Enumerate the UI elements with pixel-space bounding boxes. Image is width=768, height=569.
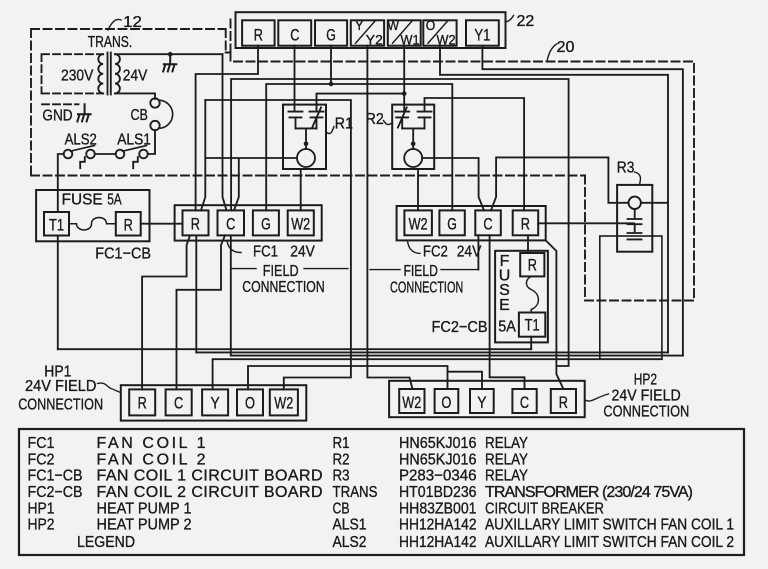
terminal G (thermostat) (315, 20, 347, 45)
svg-text:24V: 24V (457, 244, 482, 261)
svg-text:R1: R1 (333, 435, 350, 452)
terminal Y/Y2 (thermostat) (351, 20, 384, 45)
svg-text:5A: 5A (498, 319, 516, 336)
switch ALS2 (64, 150, 73, 159)
svg-text:TRANS: TRANS (333, 484, 378, 501)
wire: bus A (T1 to T1) (58, 348, 531, 350)
svg-text:230V: 230V (61, 68, 94, 85)
svg-text:HN65KJ016: HN65KJ016 (399, 451, 477, 468)
label 12 (108, 19, 121, 30)
svg-text:R: R (138, 394, 147, 413)
svg-text:HH12HA142: HH12HA142 (399, 517, 477, 534)
terminal O/W2 (thermostat) (423, 20, 456, 45)
svg-text:RELAY: RELAY (485, 468, 528, 485)
svg-text:T1: T1 (525, 316, 540, 335)
terminal W2 (HP2) (399, 389, 424, 413)
terminal R (FC1-CB) (116, 212, 141, 236)
leader: FC2 24V label (408, 241, 421, 254)
label 22 (506, 16, 514, 23)
svg-text:R: R (559, 393, 568, 412)
terminal C (HP1) (166, 389, 192, 415)
fuse board FC2-CB outline (495, 251, 548, 343)
svg-text:HEAT PUMP 1: HEAT PUMP 1 (97, 500, 192, 517)
svg-text:G: G (326, 25, 336, 44)
svg-text:24V FIELD: 24V FIELD (612, 388, 681, 405)
svg-text:GND: GND (42, 108, 72, 125)
R1 contact bottom bar and coil lead (296, 128, 317, 149)
svg-text:FC1: FC1 (253, 243, 278, 260)
dashed enclosure 20 boundary (31, 53, 694, 301)
label leader dashes FIELD CONNECTION (FC2) (370, 269, 477, 271)
R3 wiring loop box (600, 236, 662, 359)
relay R1 box (283, 105, 326, 169)
svg-text:FAN COIL 1 CIRCUIT BOARD: FAN COIL 1 CIRCUIT BOARD (97, 468, 323, 485)
svg-text:24V: 24V (123, 68, 148, 85)
svg-text:C: C (483, 214, 492, 233)
label FUSE (vertical, FC2-CB) (499, 253, 511, 314)
wire: R2 output to FC2 W2 (417, 169, 419, 210)
svg-text:C: C (520, 393, 529, 412)
wire: bus E linking O terminals (248, 366, 448, 389)
node: G junction (329, 82, 334, 87)
svg-text:Y1: Y1 (474, 25, 490, 44)
svg-text:RELAY: RELAY (485, 451, 528, 468)
svg-text:HH12HA142: HH12HA142 (399, 534, 477, 551)
dashed enclosure 12 (transformer box) (31, 16, 231, 176)
svg-text:E: E (499, 297, 510, 314)
terminal R (HP2) (551, 389, 576, 413)
terminal Y (HP1) (202, 389, 228, 415)
svg-text:W: W (388, 18, 400, 33)
svg-text:TRANS.: TRANS. (88, 34, 133, 51)
terminal T1 (FC1-CB) (44, 212, 69, 236)
wire: ALS2 down to T1 fuse box (58, 154, 64, 212)
terminal W2 (HP1) (270, 389, 298, 415)
wire: FC1 R down to bus (195, 235, 197, 352)
wire: R3 coil right to O/W2 line (641, 202, 668, 204)
terminal R (FC2-CB) (520, 253, 544, 276)
leader: FC1 24V label (227, 241, 241, 253)
R3 contacts (628, 209, 642, 239)
wire: link to HP2 Y (448, 372, 483, 389)
svg-text:AUXILLARY LIMIT SWITCH FAN COI: AUXILLARY LIMIT SWITCH FAN COIL 1 (485, 517, 734, 534)
wire: FC1 C down to bus (230, 235, 232, 355)
svg-text:R3: R3 (617, 160, 635, 177)
svg-text:CONNECTION: CONNECTION (603, 404, 689, 421)
svg-text:C: C (174, 394, 183, 413)
FC2 24V strip outline (397, 206, 546, 240)
terminal C (FC1) (218, 210, 245, 235)
svg-text:W1: W1 (401, 32, 420, 47)
label leader dashes FIELD CONNECTION (FC1) (232, 268, 348, 270)
ground symbol (top, at junction) (163, 54, 176, 71)
terminal C (thermostat) (278, 20, 311, 45)
fuse 5A squiggle (FC2-CB) (526, 276, 538, 312)
svg-text:HEAT PUMP 2: HEAT PUMP 2 (97, 517, 192, 534)
wire: R1 output to FC1 W2 (300, 169, 302, 210)
wire: T1 down to lower bus (57, 236, 59, 350)
svg-text:CB: CB (333, 500, 350, 517)
terminal W/W1 (thermostat) (388, 20, 421, 45)
wire: bus C (231, 355, 683, 357)
svg-text:12: 12 (123, 14, 142, 31)
node: junction dot on 24V wire (168, 52, 173, 57)
svg-text:R: R (528, 256, 537, 275)
svg-text:CONNECTION: CONNECTION (18, 397, 103, 414)
terminal C (HP2) (512, 389, 536, 413)
terminal R (FC1) (183, 210, 209, 235)
svg-text:FAN COIL 1: FAN COIL 1 (97, 435, 206, 452)
terminal O (HP2) (435, 389, 459, 413)
svg-text:FC1−CB: FC1−CB (28, 468, 83, 485)
wire: ALS1 to ALS2 (95, 153, 116, 155)
svg-text:FIELD: FIELD (263, 263, 299, 280)
leader: HP2 label (585, 394, 609, 401)
terminal R (FC2) (513, 210, 539, 235)
terminal T1 (FC2-CB) (519, 313, 545, 337)
svg-text:20: 20 (557, 39, 575, 56)
ground symbol (GND label) (77, 104, 90, 121)
svg-text:HP1: HP1 (28, 500, 55, 517)
wire: thermostat G drop (330, 46, 332, 84)
svg-text:RELAY: RELAY (485, 435, 528, 452)
leader: HP1 label (98, 383, 121, 392)
fuse board FC1-CB outline (36, 190, 149, 241)
wire: transformer 24V to FC1 C (223, 54, 227, 210)
relay R2 box (392, 105, 434, 169)
svg-text:FC2: FC2 (423, 244, 448, 261)
svg-text:FC1−CB: FC1−CB (95, 246, 151, 263)
svg-text:G: G (447, 214, 457, 233)
svg-text:ALS2: ALS2 (65, 131, 97, 148)
svg-text:FC2−CB: FC2−CB (432, 319, 488, 336)
terminal R (thermostat) (242, 20, 275, 45)
legend box (19, 429, 744, 555)
terminal R (HP1) (129, 389, 155, 415)
wire: thermostat R down-left to FC1 R (196, 46, 258, 211)
wire: W/W1 branch to R1 contact (317, 94, 405, 112)
circuit breaker CB (150, 98, 159, 107)
svg-text:W2: W2 (274, 394, 293, 413)
svg-text:CONNECTION: CONNECTION (242, 279, 324, 296)
svg-text:G: G (261, 215, 271, 234)
svg-text:FUSE: FUSE (62, 192, 103, 209)
terminal G (FC1) (253, 210, 279, 235)
wire: thermostat O/W2 right and down to R3 coil (440, 46, 668, 353)
svg-text:LEGEND: LEGEND (77, 534, 135, 551)
svg-text:FC2−CB: FC2−CB (28, 484, 83, 501)
svg-text:R2: R2 (366, 111, 384, 128)
R1 coil (297, 149, 315, 167)
svg-text:AUXILLARY LIMIT SWITCH FAN COI: AUXILLARY LIMIT SWITCH FAN COIL 2 (485, 534, 734, 551)
R1 contact b (slashed) (310, 108, 324, 129)
svg-text:5A: 5A (107, 192, 122, 209)
svg-text:FIELD: FIELD (404, 263, 438, 280)
svg-text:O: O (245, 394, 255, 413)
svg-text:O: O (426, 18, 436, 33)
transformer T1 core (108, 53, 111, 95)
wire: FC1-CB R to FC1 strip R (141, 223, 183, 225)
svg-text:Y2: Y2 (366, 32, 383, 47)
svg-text:W2: W2 (409, 214, 428, 233)
terminal Y1 (thermostat) (466, 20, 499, 45)
wire: thermostat C down to R1 contact (294, 46, 296, 112)
label 20 (547, 44, 557, 62)
wire: secondary top to junction and right (115, 53, 223, 55)
svg-text:O: O (441, 393, 451, 412)
thermostat box 22 outline (236, 12, 506, 48)
wire: R2 coil to FC2 C (422, 158, 484, 210)
wire: C branch right to HP2 R (295, 79, 569, 389)
wire: FC1 R to HP1 R (142, 235, 190, 389)
svg-text:Y: Y (211, 394, 220, 413)
svg-text:24V FIELD: 24V FIELD (25, 378, 96, 395)
leader: R3 label (635, 172, 641, 185)
wire: R2 contact to FC2 R (425, 98, 525, 210)
svg-text:W2: W2 (437, 32, 456, 47)
svg-text:HN65KJ016: HN65KJ016 (399, 435, 477, 452)
wire: thermostat Y1 right and down (482, 46, 683, 356)
terminal G (FC2) (439, 210, 464, 235)
svg-text:TRANSFORMER (230/24 75VA): TRANSFORMER (230/24 75VA) (485, 484, 693, 501)
wire: FC2 C field stub (477, 235, 479, 269)
svg-text:Y: Y (355, 18, 364, 33)
wire: FC2-CB T1 down to bus (530, 337, 532, 350)
svg-text:HP2: HP2 (634, 371, 657, 388)
wire: thermostat Y/Y2 long drop to HP2 W2 (367, 46, 412, 389)
wire: vertical from R3 feed line down (546, 240, 557, 366)
R2 coil (404, 149, 422, 167)
transformer secondary winding 24V (115, 54, 120, 93)
svg-text:R: R (254, 25, 263, 44)
svg-text:FAN COIL 2 CIRCUIT BOARD: FAN COIL 2 CIRCUIT BOARD (97, 484, 323, 501)
wire: bus B (196, 351, 668, 353)
FC1 24V strip outline (175, 205, 322, 240)
svg-text:CB: CB (131, 107, 148, 124)
leader: R1 label (326, 127, 334, 134)
terminal W2 (FC1) (288, 210, 314, 235)
transformer primary winding 230V (98, 54, 103, 93)
R3 coil (629, 197, 641, 209)
wire: CB to ALS1 (148, 130, 155, 154)
svg-text:R1: R1 (335, 115, 353, 132)
terminal Y (HP2) (470, 389, 494, 413)
wire: FC2 R to fuse R (527, 235, 529, 253)
svg-text:R: R (521, 214, 530, 233)
wire: bus y99 to FC1 R and down to W2 riser (205, 100, 351, 389)
svg-text:FC2: FC2 (28, 451, 55, 468)
wire: secondary bottom to CB (115, 93, 155, 99)
node: W/W1 junction (402, 91, 407, 96)
svg-text:ALS1: ALS1 (333, 517, 367, 534)
svg-text:R2: R2 (333, 451, 350, 468)
HP1 24V field connection strip outline (121, 385, 306, 420)
wire: FC1 C to HP1 C (177, 235, 226, 389)
svg-text:R3: R3 (333, 468, 350, 485)
HP2 24V field connection strip outline (389, 381, 585, 417)
wire: C branch to FC1 C (231, 79, 294, 210)
leader: R2 label (384, 121, 393, 125)
svg-text:R: R (124, 216, 133, 235)
R1 contact a (plain) (289, 112, 303, 129)
svg-text:24V: 24V (290, 243, 315, 260)
wire: R1 coil to FC1 C (201, 100, 297, 210)
switch ALS1 (116, 150, 125, 159)
svg-text:T1: T1 (49, 216, 64, 235)
svg-text:CONNECTION: CONNECTION (390, 280, 463, 297)
svg-text:HH83ZB001: HH83ZB001 (399, 500, 477, 517)
primary leads (dashed 230V lines) (42, 54, 104, 104)
svg-text:HT01BD236: HT01BD236 (399, 484, 477, 501)
svg-text:Y: Y (477, 393, 486, 412)
terminal C (FC2) (475, 210, 501, 235)
svg-text:CIRCUIT BREAKER: CIRCUIT BREAKER (485, 500, 604, 517)
terminal W2 (FC2) (404, 210, 432, 235)
svg-text:FAN COIL 2: FAN COIL 2 (97, 451, 206, 468)
wire: G bus to FC1 G and FC2 G (266, 84, 452, 210)
terminal O (HP1) (237, 389, 263, 415)
svg-text:ALS1: ALS1 (117, 131, 151, 148)
svg-text:C: C (226, 215, 235, 234)
svg-text:P283−0346: P283−0346 (399, 468, 477, 485)
node: R2 coil junction (411, 142, 416, 147)
R2 contact bottom bar and coil lead (402, 128, 424, 149)
wire: bus D with HP1 Y riser (213, 359, 662, 389)
R2 contact a (slashed) (395, 108, 409, 129)
wire: R3 coil to FC2 C (491, 157, 629, 210)
svg-text:ALS2: ALS2 (333, 534, 367, 551)
wire: thermostat W/W1 down to R2 contact (403, 46, 405, 112)
svg-text:C: C (290, 25, 299, 44)
svg-text:22: 22 (517, 13, 535, 30)
wire: FC2 C down to HP2 C (490, 235, 525, 389)
svg-text:FC1: FC1 (28, 435, 55, 452)
svg-text:W2: W2 (402, 393, 421, 412)
relay R3 box (617, 185, 652, 252)
wire: FC2 R to R3 contact (538, 222, 634, 224)
svg-text:HP2: HP2 (28, 517, 55, 534)
R2 contact b (plain) (418, 112, 432, 129)
svg-text:R: R (191, 215, 200, 234)
svg-text:W2: W2 (291, 215, 310, 234)
node: R1 coil junction (304, 142, 309, 147)
fuse 5A squiggle (FC1-CB) (69, 217, 116, 229)
